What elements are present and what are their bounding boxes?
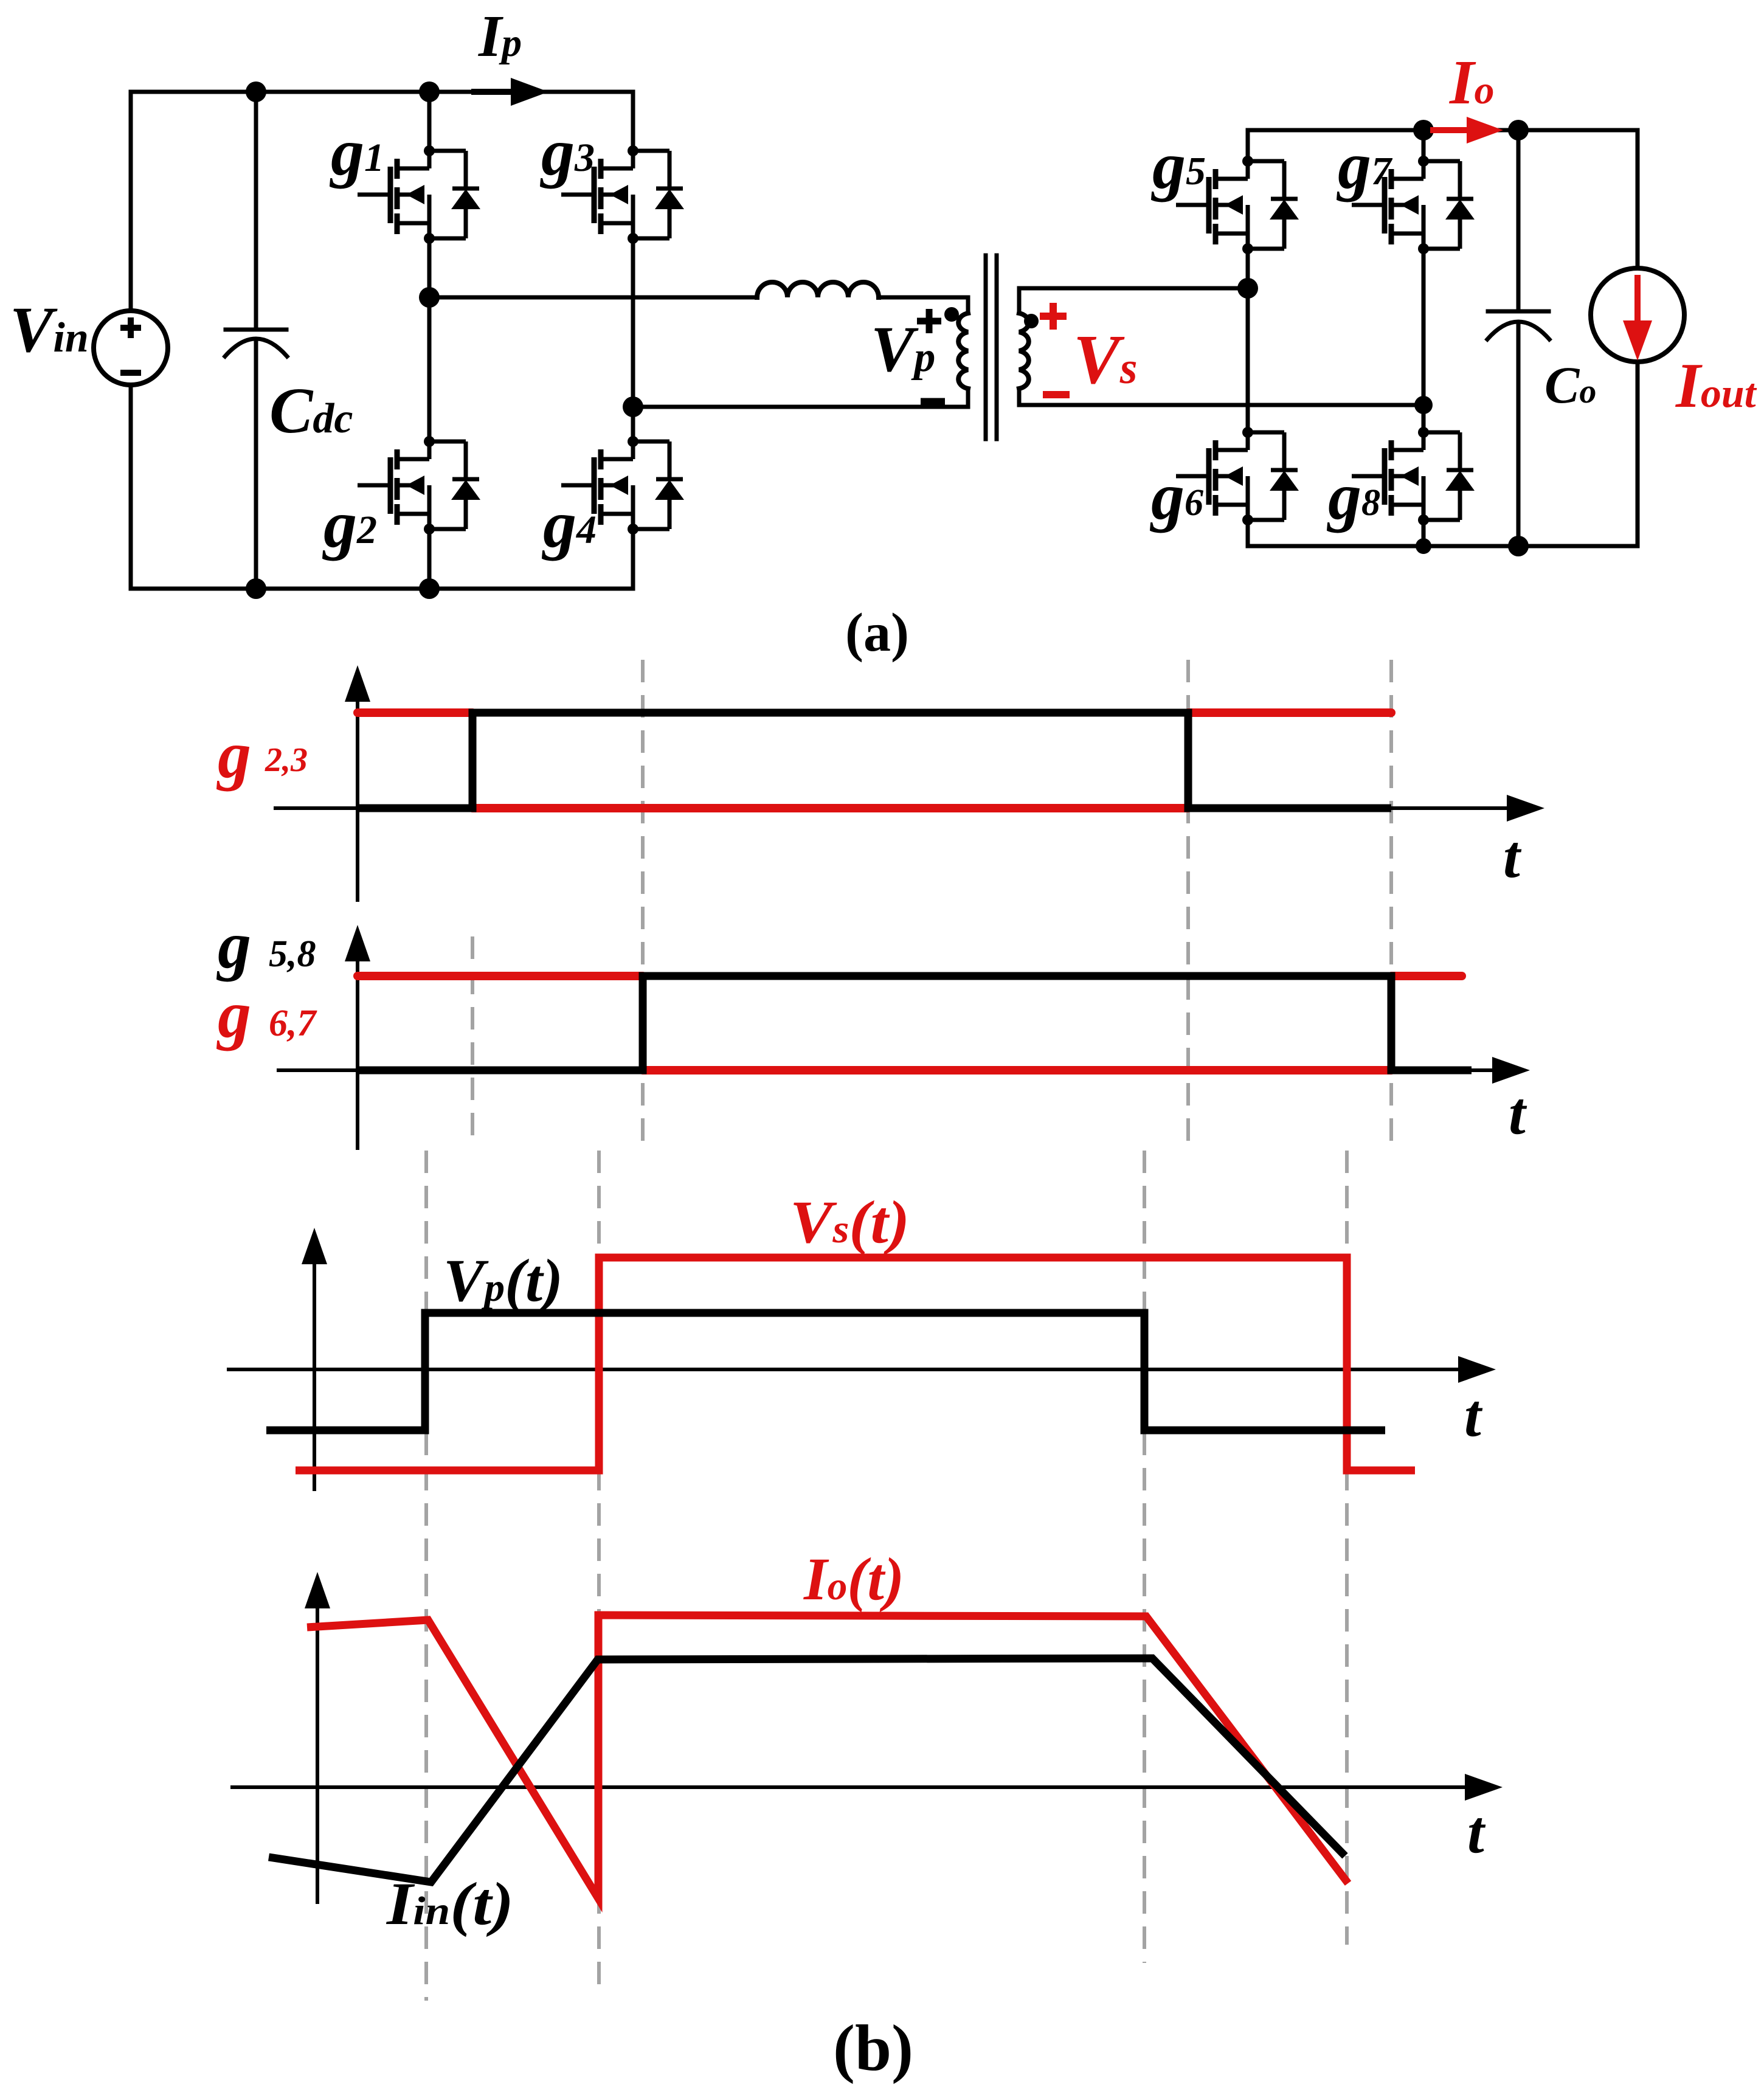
svg-text:Iin(t): Iin(t) (386, 1870, 514, 1937)
svg-text:(b): (b) (833, 2012, 913, 2085)
svg-text:Io(t): Io(t) (803, 1545, 904, 1613)
svg-text:Vs(t): Vs(t) (790, 1188, 910, 1256)
svg-text:6,7: 6,7 (269, 1003, 318, 1044)
svg-text:2,3: 2,3 (265, 741, 308, 779)
svg-text:t: t (1464, 1382, 1483, 1449)
svg-text:g: g (216, 977, 251, 1051)
svg-text:t: t (1503, 823, 1522, 890)
svg-text:g: g (216, 718, 251, 792)
svg-text:t: t (1467, 1798, 1486, 1866)
svg-text:(a): (a) (845, 603, 909, 663)
svg-text:t: t (1509, 1079, 1527, 1147)
svg-text:g: g (216, 908, 251, 982)
svg-text:5,8: 5,8 (269, 933, 316, 975)
